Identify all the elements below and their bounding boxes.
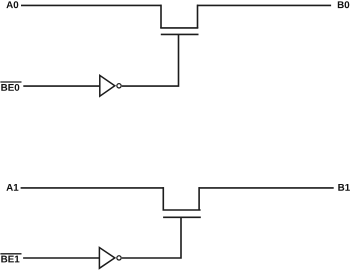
node BE1 [0,254,21,263]
wire A0 to Q1 drain [21,4,161,6]
wire A1 to Q2 drain [21,187,164,189]
wire BE0 to U1 input [23,85,100,87]
wire BE1 to U2 input [23,257,100,259]
node A0 [6,1,18,8]
wire Q1 source to B0 [197,4,331,6]
node B1 [338,184,350,191]
wire U1 output to Q1 gate [122,34,179,86]
inverter U2 [99,248,121,269]
transistor Q1 [160,5,198,35]
wire Q2 source to B1 [199,187,334,189]
node B0 [338,1,349,8]
node A1 [6,184,18,191]
wire U2 output to Q2 gate [122,217,181,258]
node BE0 [0,82,21,91]
inverter U1 [100,75,121,96]
transistor Q2 [163,187,201,217]
